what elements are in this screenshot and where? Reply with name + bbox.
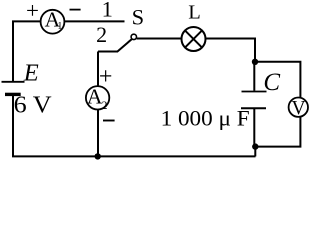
wire: pivot to lamp to right corner, down to node [137,39,255,62]
wire: voltmeter bottom to lower node [255,117,300,147]
capacitor C top plate [242,91,267,93]
switch S pivot [131,34,136,39]
svg-text:C: C [263,69,280,96]
svg-text:2: 2 [102,100,108,112]
wire: contact-2 horizontal stub [98,51,118,53]
wire: A2 branch vertical from contact 2 to bottom wire [97,52,99,157]
svg-text:+: + [26,0,39,23]
switch S blade (diagonal) [117,39,132,52]
svg-text:6 V: 6 V [14,92,53,118]
svg-text:L: L [188,1,201,23]
node: junction A2 branch and bottom wire [95,153,101,159]
svg-text:V: V [291,98,305,119]
wire: node to voltmeter branch (right, down) [255,62,300,98]
svg-text:2: 2 [96,22,107,47]
wire: node down to capacitor top plate [253,62,255,91]
battery E bottom plate (short thick) [5,93,21,96]
svg-text:E: E [23,59,39,86]
svg-text:1 000 μ F: 1 000 μ F [161,105,250,130]
wire: bottom horizontal [12,155,256,157]
wire: battery negative down to bottom wire [12,96,14,157]
wire: lower node down to bottom wire [254,147,256,157]
svg-text:A: A [87,84,103,108]
lamp L [182,27,206,51]
label minus (A1 right) [70,9,81,11]
node: junction capacitor/voltmeter/bottom wire [252,143,258,149]
wire: left vertical from top-left corner to battery [12,21,14,81]
node: junction of lamp/capacitor/voltmeter (top) [252,59,258,65]
wire: capacitor bottom plate down to lower node [253,108,255,146]
ammeter A1 [41,7,65,33]
capacitor C bottom plate [241,107,266,109]
battery E top plate (long thin) [2,81,25,83]
label minus (A2) [103,120,115,122]
ammeter A2 [86,84,109,112]
svg-text:S: S [132,5,145,30]
wire: top horizontal through A1 to contact 1 [12,20,125,22]
voltmeter V [289,98,308,119]
svg-text:1: 1 [57,21,62,32]
svg-text:1: 1 [102,0,113,22]
